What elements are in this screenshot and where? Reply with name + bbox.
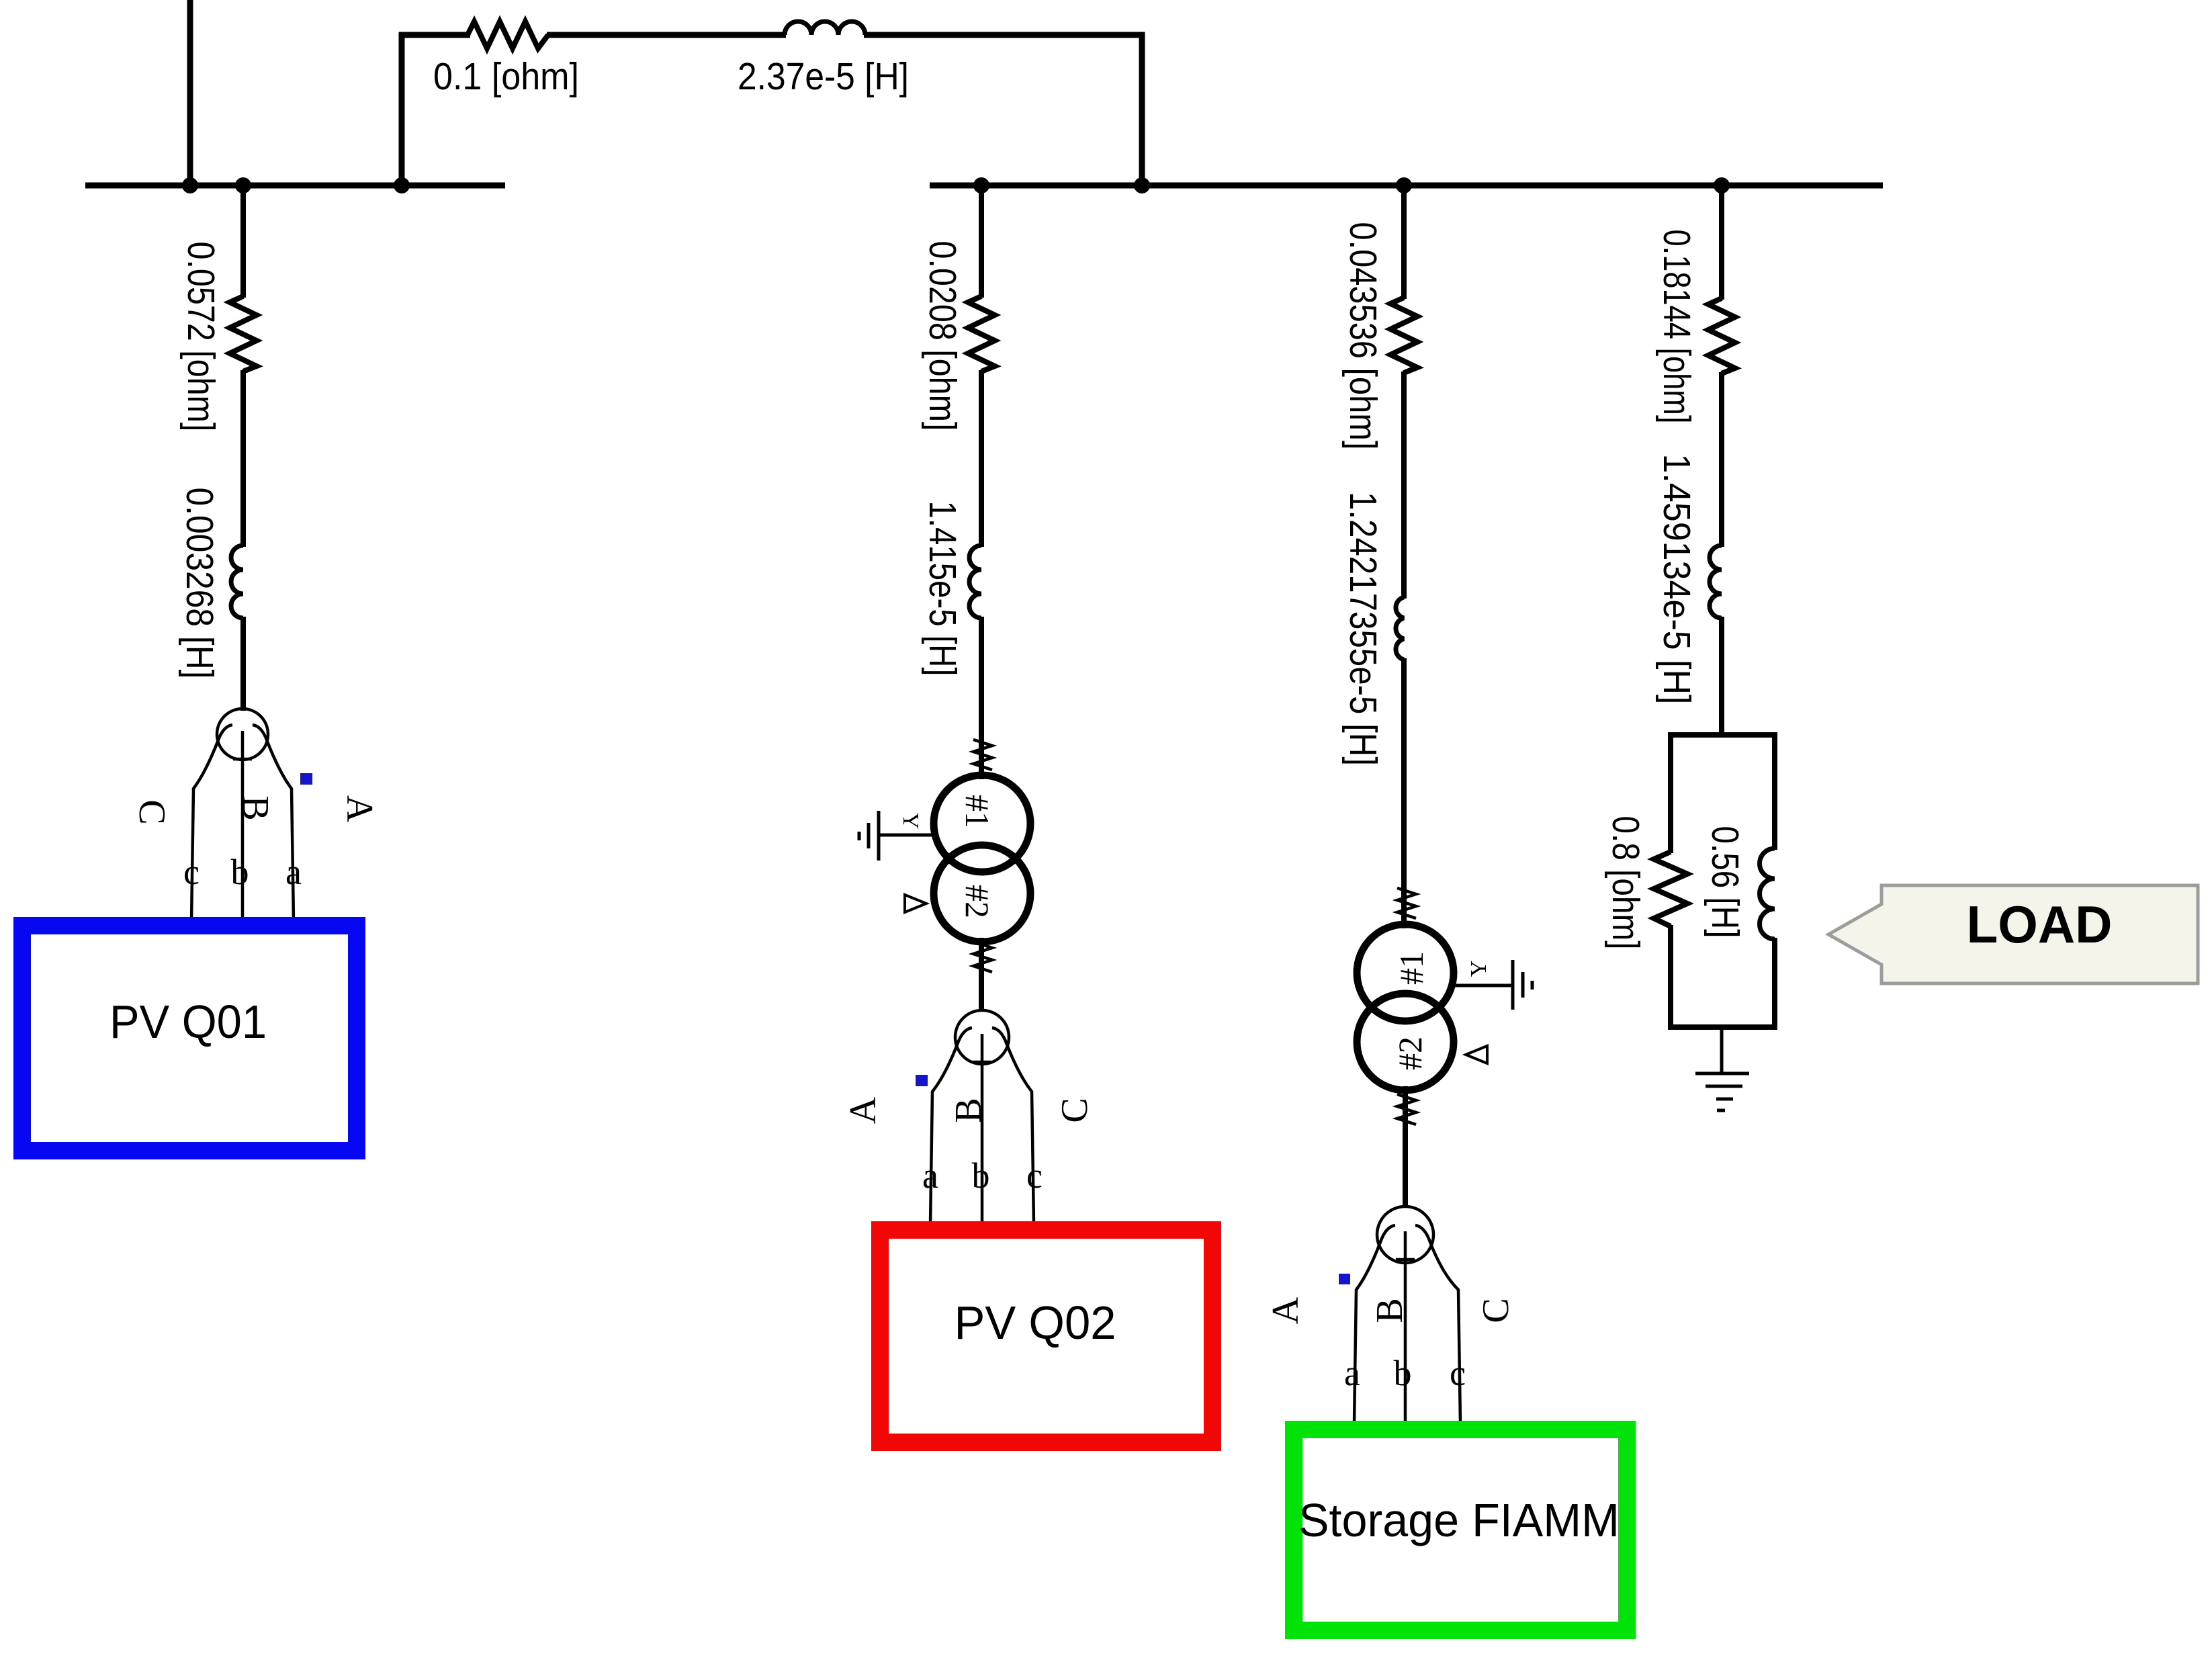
svg-text:b: b [1394,1353,1412,1393]
wire: drop from tie-line to right bus [1139,32,1145,185]
svg-text:A: A [339,795,380,823]
wire: load right lower [1772,938,1777,1030]
svg-text:b: b [231,852,249,892]
svg-text:B: B [1369,1298,1411,1323]
transformer T2 primary circle #1 [1357,924,1454,1021]
svg-text:b: b [972,1155,990,1196]
transformer T1 primary circle #1 [934,775,1030,872]
inductor L2 1.415e-5 H [969,545,981,618]
wire: riser from left bus to tie-line [399,32,405,185]
label: 0.56 [H] [1704,826,1746,938]
wire: tie-line middle segment [547,32,786,38]
node: junction dot branch3 [1396,177,1412,193]
label: phase c lowercase branch2 [1026,1155,1043,1196]
inductor L4 1.459134e-5 H [1710,545,1722,618]
svg-text:1.459134e-5 [H]: 1.459134e-5 [H] [1655,454,1698,705]
wire: branch3 upper [1401,185,1407,299]
label: 2.37e-5 [H] [738,55,909,98]
svg-text:#2: #2 [959,885,996,918]
resistor R4 0.18144 ohm [1708,298,1735,373]
wire: phase B center line branch3 [1396,1231,1415,1423]
node: junction dot branch1 [235,177,251,193]
wire: right bus [930,183,1883,189]
svg-text:#1: #1 [959,795,996,828]
label: PV Q02 [955,1296,1116,1349]
svg-text:1.415e-5 [H]: 1.415e-5 [H] [921,501,964,676]
subsystem box PV Q01 [22,926,357,1151]
label: phase a lowercase branch2 [922,1155,938,1196]
label: 0.1 [ohm] [433,55,579,98]
wire: branch2 to transformer [979,617,984,779]
breakout B2: arch curves [930,1028,1034,1224]
wire: left bus [85,183,505,189]
label: phase c lowercase branch1 [183,852,200,892]
svg-text:a: a [285,852,302,892]
label: 1.24217355e-5 [H] [1341,492,1384,766]
transformer T1 winding squiggle top [973,740,992,770]
wire: branch3 middle [1401,371,1407,599]
node: blue tap square branch2 [916,1075,928,1086]
subsystem box PV Q02 [880,1230,1212,1442]
wire: branch1 middle [240,370,246,547]
wire: branch3 transformer to breakout [1403,1086,1408,1208]
wire: T2 ground lead [1452,984,1513,987]
wire: load right upper [1772,732,1777,850]
wire: branch1 upper [240,185,246,298]
svg-text:0.18144 [ohm]: 0.18144 [ohm] [1655,230,1698,424]
label: phase A branch3 [1265,1296,1307,1324]
svg-text:1.24217355e-5 [H]: 1.24217355e-5 [H] [1341,492,1384,766]
ground: load [1695,1073,1749,1110]
label: Y winding (T1) [898,813,923,830]
wire: phase B center line branch2 [973,1034,991,1224]
label: phase c lowercase branch3 [1450,1353,1466,1393]
svg-text:2.37e-5 [H]: 2.37e-5 [H] [738,55,909,98]
label: phase B branch1 [234,795,276,820]
label: phase b lowercase branch1 [231,852,249,892]
svg-text:c: c [1026,1155,1043,1196]
label: 0.043536 [ohm] [1341,222,1384,450]
svg-text:C: C [131,799,173,824]
transformer T2 winding squiggle bottom [1397,1094,1416,1125]
wire: load bottom rail [1671,1024,1775,1030]
inductor L_tie 2.37e-5 H [785,21,865,35]
label: phase A branch1 [339,795,380,823]
svg-text:LOAD: LOAD [1967,895,2113,954]
label: phase B branch3 [1369,1298,1411,1323]
node: junction dot branch4 [1714,177,1730,193]
label: #1 (T1) [959,795,996,828]
inductor L1 0.003268 H [231,545,243,618]
breakout 3-phase B1: circle [217,709,268,760]
label: 0.18144 [ohm] [1655,230,1698,424]
wire: tie-line left segment [399,32,470,38]
resistor R1 0.0572 ohm [230,296,257,371]
label: phase B branch2 [948,1098,989,1123]
svg-text:Y: Y [1466,961,1491,977]
svg-text:c: c [183,852,200,892]
label: phase C branch2 [1054,1098,1096,1123]
label: 0.003268 [H] [178,488,221,679]
wire: load left upper [1668,732,1673,853]
svg-text:0.1 [ohm]: 0.1 [ohm] [433,55,579,98]
svg-text:Y: Y [898,813,923,830]
breakout 3-phase B3: circle [1377,1206,1433,1263]
label: 0.8 [ohm] [1604,816,1647,950]
resistor R_tie 0.1 ohm [468,21,548,48]
label: Storage FIAMM [1298,1494,1620,1546]
svg-text:#1: #1 [1392,951,1430,985]
label: 0.0208 [ohm] [921,241,964,431]
svg-text:0.0208 [ohm]: 0.0208 [ohm] [921,241,964,431]
wire: load ground stem [1720,1027,1724,1073]
wire: branch4 to load [1719,617,1724,738]
label: phase b lowercase branch3 [1394,1353,1412,1393]
breakout B3: arch curves [1354,1225,1460,1423]
label: phase b lowercase branch2 [972,1155,990,1196]
wire: branch2 upper [979,185,984,298]
wire: feeder stub from top edge [187,0,193,185]
wire: phase B center line branch1 [233,731,252,920]
svg-text:a: a [1344,1353,1360,1393]
label: phase A branch2 [842,1096,884,1124]
wire: tie-line right segment [864,32,1145,38]
node: junction dot feeder/bus [182,177,198,193]
svg-text:0.003268 [H]: 0.003268 [H] [178,488,221,679]
node: junction dot tie drop [1134,177,1150,193]
label: #1 (T2) [1392,951,1430,985]
svg-text:A: A [1265,1296,1307,1324]
svg-text:0.0572 [ohm]: 0.0572 [ohm] [179,242,222,432]
wire: branch3 to transformer [1401,658,1407,928]
label: phase a lowercase branch1 [285,852,302,892]
node: blue tap square branch3 [1339,1274,1350,1284]
wire: branch4 middle [1719,372,1724,547]
inductor L_load 0.56 H [1760,848,1775,939]
wire: branch4 upper [1719,185,1724,300]
transformer T1 winding squiggle bottom [973,942,992,972]
label: phase C branch1 [131,799,173,824]
svg-text:A: A [842,1096,884,1124]
inductor L3 1.24217355e-5 H [1396,597,1404,660]
breakout B1: arch curves [191,725,294,920]
resistor R2 0.0208 ohm [968,296,995,371]
node: junction dot riser [394,177,410,193]
resistor R_load 0.8 ohm [1654,852,1687,926]
callout: LOAD annotation [1828,885,2198,983]
svg-text:a: a [922,1155,938,1196]
label: #2 (T1) [959,885,996,918]
svg-text:#2: #2 [1391,1037,1429,1070]
node: junction dot branch2 [973,177,989,193]
svg-text:C: C [1054,1098,1096,1123]
ground: T1 neutral [859,811,879,861]
svg-text:Storage FIAMM: Storage FIAMM [1298,1494,1620,1546]
resistor R3 0.043536 ohm [1390,298,1417,373]
wire: load top rail [1671,732,1775,738]
label: 0.0572 [ohm] [179,242,222,432]
label: 1.459134e-5 [H] [1655,454,1698,705]
transformer T2 winding squiggle top [1397,888,1416,918]
svg-text:0.043536 [ohm]: 0.043536 [ohm] [1341,222,1384,450]
symbol: delta winding (T1) [905,895,926,912]
svg-text:0.8 [ohm]: 0.8 [ohm] [1604,816,1647,950]
transformer T2 secondary circle #2 [1357,994,1454,1090]
subsystem box Storage FIAMM [1294,1429,1627,1630]
node: blue tap square branch1 [300,773,312,785]
svg-text:B: B [234,795,276,820]
transformer T1 secondary circle #2 [934,845,1030,942]
label: PV Q01 [109,996,267,1048]
label: phase C branch3 [1475,1298,1517,1323]
svg-text:0.56 [H]: 0.56 [H] [1704,826,1746,938]
wire: T1 ground lead [879,834,934,837]
symbol: delta winding (T2) [1466,1046,1487,1063]
svg-text:c: c [1450,1353,1466,1393]
wire: load left lower [1668,925,1673,1030]
wire: branch2 middle [979,370,984,547]
svg-text:PV Q02: PV Q02 [955,1296,1116,1349]
label: phase a lowercase branch3 [1344,1353,1360,1393]
svg-text:PV Q01: PV Q01 [109,996,267,1048]
wire: branch2 transformer to breakout [979,938,984,1012]
label: #2 (T2) [1391,1037,1429,1070]
svg-text:C: C [1475,1298,1517,1323]
svg-text:B: B [948,1098,989,1123]
label: 1.415e-5 [H] [921,501,964,676]
ground: T2 neutral [1513,960,1532,1010]
wire: branch1 lower [240,617,246,711]
breakout 3-phase B2: circle [955,1010,1009,1064]
label: Y winding (T2) [1466,961,1491,977]
